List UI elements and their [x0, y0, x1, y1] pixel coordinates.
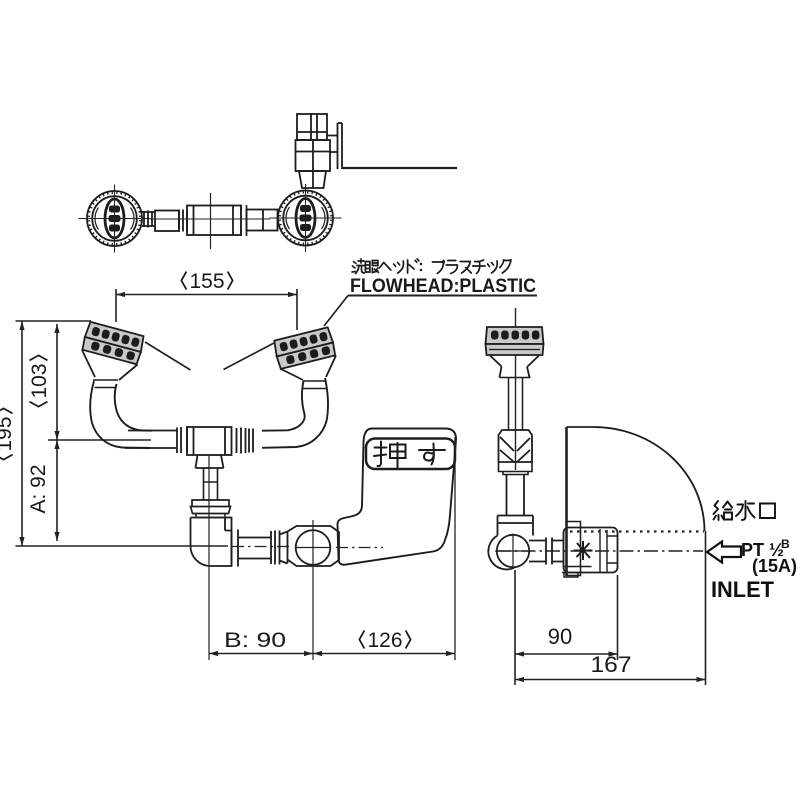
right eyewash head (front) — [273, 327, 336, 369]
left eyewash head (front) — [81, 321, 145, 364]
svg-text:126: 126 — [367, 629, 402, 652]
inlet hollow arrow — [707, 542, 741, 563]
elbow (side) — [488, 534, 531, 570]
push label box — [366, 439, 455, 470]
valve body (side) — [562, 528, 618, 578]
push plate edge (side) — [567, 427, 581, 576]
kanji: osu (push) — [374, 442, 445, 468]
svg-text:B: 90: B: 90 — [224, 629, 286, 652]
push handle (front) — [337, 429, 456, 565]
svg-text:103: 103 — [28, 363, 51, 398]
dim 103 and A92 — [54, 324, 59, 541]
side vertical pipe — [490, 356, 539, 431]
right head taper and tube — [262, 356, 336, 448]
horizontal supply pipe (front) — [125, 427, 253, 468]
svg-text:155: 155 — [189, 270, 224, 293]
elbow (front) — [190, 518, 231, 567]
side head centerline — [515, 308, 517, 470]
svg-text:195: 195 — [0, 416, 16, 451]
svg-text:90: 90 — [548, 624, 572, 649]
plan centerline of tee — [150, 193, 270, 249]
svg-text:(15A): (15A) — [752, 556, 797, 576]
stop valve above right head (plan) — [296, 114, 331, 188]
svg-text:B: B — [781, 537, 790, 551]
side dims 90 167 — [515, 531, 706, 685]
inlet centerline — [497, 550, 703, 552]
svg-text:INLET: INLET — [711, 577, 775, 602]
dim 155 — [116, 289, 297, 330]
front view group — [81, 321, 456, 566]
left spray head (plan) — [79, 185, 151, 253]
side eyewash head — [486, 327, 544, 355]
bottom dims B90 (126) — [209, 437, 455, 660]
union nut (side) — [499, 430, 533, 475]
top view plan of eyewash assembly — [79, 114, 458, 253]
svg-text:FLOWHEAD:PLASTIC: FLOWHEAD:PLASTIC — [350, 275, 536, 297]
left head taper and tube — [82, 350, 152, 448]
vertical drop pipe and union (front) — [191, 468, 231, 518]
side view group — [486, 308, 705, 577]
water level dotted line — [570, 530, 704, 532]
lower pipe and hex fitting (side) — [498, 475, 534, 536]
handle swing arc — [567, 427, 705, 531]
svg-text:A: 92: A: 92 — [27, 464, 50, 513]
connecting pipe (plan) — [142, 205, 278, 236]
ball valve (front) — [288, 526, 340, 566]
outlet pipe to valve (front) — [232, 530, 288, 567]
dim 195 — [19, 321, 24, 546]
pipe to valve (side) — [529, 538, 563, 565]
spray direction lines — [145, 342, 274, 370]
svg-text:167: 167 — [591, 652, 632, 677]
kanji label: flow head plastic (japanese) — [352, 259, 511, 274]
kanji label: inlet (japanese) — [714, 501, 776, 520]
left extension lines — [16, 321, 384, 548]
right spray head (plan) — [270, 184, 342, 252]
push lever (plan) — [327, 123, 457, 169]
